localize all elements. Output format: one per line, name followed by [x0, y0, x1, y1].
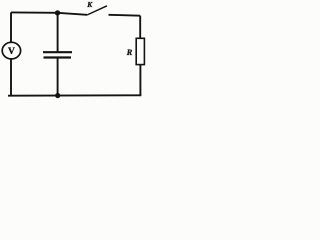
wire left vertical lower (source V to bottom wire): [10, 59, 12, 96]
svg-text:V: V: [8, 47, 15, 57]
svg-text:K: K: [86, 0, 93, 9]
capacitor C top plate: [43, 51, 72, 53]
wire bottom horizontal (full width return): [8, 94, 141, 96]
switch K blade (open, rising to the right): [87, 6, 107, 15]
wire top-left horizontal (node A to switch): [11, 12, 87, 14]
resistor R (box symbol): [136, 38, 144, 64]
node A junction dot (top): [55, 10, 60, 15]
voltage source V (ellipse body): [2, 42, 20, 59]
wire capacitor top lead (node A down to top plate): [57, 13, 59, 52]
wire top-right horizontal (switch right contact to corner): [109, 14, 141, 17]
node B junction dot (bottom): [55, 93, 60, 98]
svg-text:R: R: [126, 47, 133, 57]
wire right vertical lower (resistor R to bottom wire): [139, 65, 141, 96]
wire capacitor bottom lead (bottom plate to node B): [57, 58, 59, 96]
wire left vertical upper (source V to top wire): [10, 12, 12, 42]
capacitor C bottom plate: [44, 56, 72, 58]
wire right vertical upper (corner down to resistor R): [139, 16, 141, 39]
